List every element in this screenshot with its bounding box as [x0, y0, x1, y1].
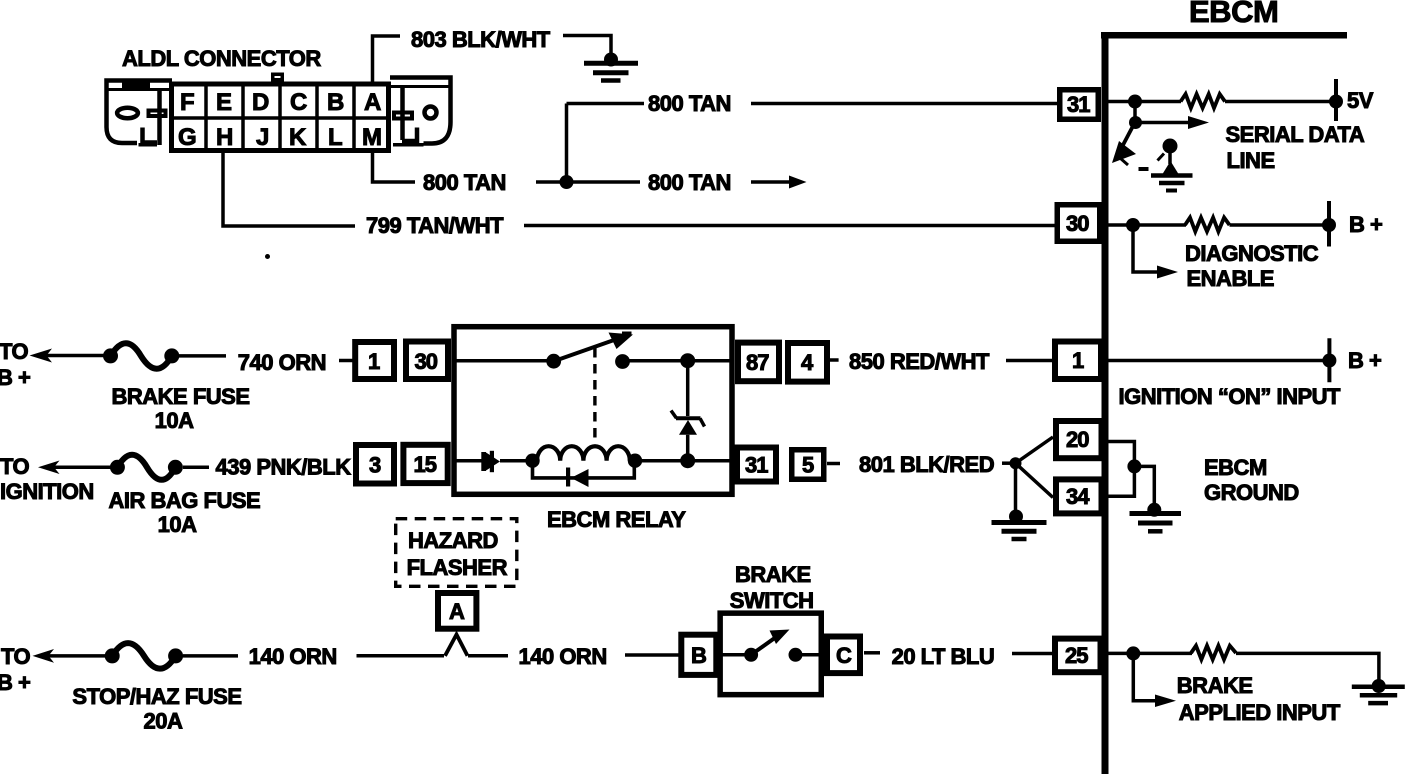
ground G4 (brake applied)	[1352, 679, 1405, 703]
arrow diagnostic enable	[1133, 225, 1178, 279]
svg-text:30: 30	[1066, 211, 1089, 236]
svg-text:87: 87	[746, 350, 769, 375]
svg-text:B: B	[691, 643, 706, 668]
wire 20 LT BLU to pin 25	[1012, 652, 1053, 656]
serial data node dot	[1129, 116, 1142, 129]
svg-text:800 TAN: 800 TAN	[648, 170, 731, 195]
brake switch pin box C	[827, 637, 880, 674]
svg-text:ALDL CONNECTOR: ALDL CONNECTOR	[122, 46, 321, 71]
connector J1 left mounting ear	[107, 81, 173, 146]
arrow 800 TAN continue	[751, 176, 807, 189]
relay pin box 1	[355, 342, 394, 379]
svg-text:EBCM RELAY: EBCM RELAY	[547, 507, 686, 532]
connector box A	[438, 593, 476, 629]
diode D1 (coil input)	[481, 451, 500, 472]
wire R2 to B+ terminal	[1230, 223, 1330, 227]
svg-text:10A: 10A	[158, 512, 197, 537]
svg-text:SWITCH: SWITCH	[730, 588, 814, 613]
EBCM pin box 34	[1056, 479, 1102, 513]
connector J1 pin grid body	[169, 74, 391, 151]
driver symbol with ground (serial data)	[1139, 139, 1193, 191]
fuse BRAKE FUSE 10A	[103, 343, 179, 369]
svg-text:L: L	[328, 124, 342, 151]
junction dot pin25	[1126, 646, 1140, 660]
svg-text:BRAKE FUSE: BRAKE FUSE	[112, 384, 250, 409]
svg-text:H: H	[216, 124, 233, 151]
svg-text:K: K	[289, 124, 307, 151]
relay pin box 15	[403, 445, 447, 483]
arrow serial data	[1136, 116, 1210, 129]
chevron tap under box A	[445, 635, 468, 656]
wire 803 to ground	[563, 36, 611, 55]
svg-text:SERIAL DATA: SERIAL DATA	[1226, 122, 1365, 147]
relay pin box 30	[406, 342, 448, 380]
relay bottom wire left	[454, 459, 482, 463]
svg-text:3: 3	[369, 453, 381, 478]
svg-text:APPLIED INPUT: APPLIED INPUT	[1179, 700, 1341, 725]
svg-text:AIR BAG FUSE: AIR BAG FUSE	[109, 488, 261, 513]
brake switch arm	[751, 630, 789, 655]
svg-text:LINE: LINE	[1227, 148, 1275, 173]
svg-text:BRAKE: BRAKE	[735, 562, 811, 587]
svg-text:20A: 20A	[144, 709, 183, 734]
relay pin box 5	[792, 450, 840, 480]
junction dot pin30	[1126, 218, 1140, 232]
coil end dot left	[525, 454, 539, 468]
fan wire to pin 20	[1016, 437, 1054, 463]
svg-text:TO: TO	[0, 339, 29, 364]
switch arm to ground (serial)	[1112, 126, 1136, 165]
svg-text:F: F	[180, 89, 194, 116]
wire pin31 to 5V	[1108, 100, 1181, 104]
svg-text:439 PNK/BLK: 439 PNK/BLK	[216, 455, 352, 480]
svg-text:20 LT BLU: 20 LT BLU	[892, 644, 995, 669]
EBCM pin box 30	[1057, 205, 1100, 242]
relay switch arm	[554, 333, 633, 362]
svg-text:J: J	[256, 124, 269, 151]
relay switch contact dot left	[546, 354, 561, 369]
wire EBCM pin1 to B+	[1108, 359, 1329, 363]
wire 799 TAN/WHT to pin 30	[524, 224, 1056, 228]
arrow to B+ (row 655)	[33, 649, 107, 663]
svg-text:10A: 10A	[155, 408, 194, 433]
arrow to ignition	[38, 461, 112, 475]
wire pin M down	[373, 153, 416, 182]
EBCM pin box 20	[1056, 421, 1102, 458]
wire 800 TAN top left segment	[567, 102, 645, 106]
relay pin box 87	[738, 343, 779, 382]
wire R3 to ground	[1236, 653, 1379, 681]
zener diode branch wire	[686, 361, 690, 461]
tiny dot artifact	[265, 254, 270, 259]
svg-text:FLASHER: FLASHER	[407, 555, 508, 580]
wire 140 ORN to chevron	[357, 654, 445, 658]
svg-text:M: M	[362, 124, 382, 151]
fan wire to pin 34	[1016, 463, 1054, 497]
svg-text:C: C	[836, 643, 852, 668]
svg-text:IGNITION: IGNITION	[0, 479, 94, 504]
svg-text:34: 34	[1066, 484, 1090, 509]
EBCM vertical boundary line	[1102, 32, 1109, 774]
svg-text:E: E	[216, 89, 232, 116]
wire fuse to 439	[183, 466, 209, 470]
internal ground node dot	[1127, 459, 1141, 473]
relay pin box 31	[737, 448, 776, 482]
wire pin A up	[373, 36, 401, 82]
hazard flasher dashed box	[396, 519, 517, 587]
svg-text:25: 25	[1065, 643, 1088, 668]
EBCM pin box 25	[1055, 639, 1101, 673]
svg-text:B +: B +	[0, 670, 30, 695]
wire fuse to 740 ORN	[179, 354, 226, 358]
EBCM relay box	[454, 327, 732, 495]
svg-text:A: A	[449, 599, 465, 624]
EBCM pin box 1	[1055, 342, 1101, 380]
arrow brake applied input	[1133, 653, 1176, 707]
svg-text:1: 1	[368, 349, 380, 374]
dashed actuator line	[593, 348, 596, 443]
connector J1 right mounting ear	[390, 78, 451, 145]
svg-text:140 ORN: 140 ORN	[519, 644, 607, 669]
arrow to B+ (row 360)	[30, 349, 105, 363]
wire 800 TAN tie vertical	[565, 104, 569, 183]
relay top wire right	[623, 359, 734, 363]
relay pin box 4	[788, 343, 839, 382]
svg-text:20: 20	[1066, 427, 1089, 452]
brake switch box	[720, 613, 821, 695]
brake switch wire left	[720, 653, 748, 657]
brake switch contact dot left	[744, 648, 758, 662]
junction dot zener bottom	[680, 453, 695, 468]
svg-text:D: D	[252, 89, 269, 116]
svg-text:801 BLK/RED: 801 BLK/RED	[859, 452, 994, 477]
wire 740 ORN to relay pin 1	[339, 359, 353, 363]
EBCM pin box 31	[1060, 90, 1099, 120]
brake switch contact dot right	[789, 648, 803, 662]
EBCM top boundary line	[1101, 32, 1347, 39]
fuse STOP/HAZ FUSE 20A	[105, 643, 183, 669]
svg-text:B +: B +	[0, 365, 30, 390]
svg-text:BRAKE: BRAKE	[1177, 673, 1253, 698]
ground G3 (EBCM internal)	[1130, 503, 1182, 532]
svg-text:850 RED/WHT: 850 RED/WHT	[849, 349, 990, 374]
junction dot zener top	[680, 353, 695, 368]
wire node to internal ground	[1134, 466, 1154, 505]
svg-text:IGNITION “ON” INPUT: IGNITION “ON” INPUT	[1119, 384, 1342, 409]
wire R1 to 5V terminal	[1225, 100, 1336, 104]
wire 800 TAN mid segment	[536, 180, 640, 184]
svg-text:740 ORN: 740 ORN	[238, 350, 326, 375]
relay switch contact dot right	[615, 354, 630, 369]
B+ terminal (row 225)	[1322, 201, 1336, 247]
wire 801 to ground fan	[1002, 461, 1013, 465]
coil end dot right	[628, 454, 642, 468]
svg-text:140 ORN: 140 ORN	[249, 644, 337, 669]
relay bottom wire right	[635, 459, 733, 463]
resistor R1 (5V pull-up)	[1181, 94, 1225, 108]
svg-text:5: 5	[802, 453, 814, 478]
svg-text:EBCM: EBCM	[1204, 455, 1267, 480]
svg-text:STOP/HAZ FUSE: STOP/HAZ FUSE	[72, 684, 241, 709]
svg-text:G: G	[178, 124, 196, 151]
ground G2 (801 BLK/RED)	[992, 510, 1047, 540]
wire pin25 to resistor	[1108, 652, 1192, 656]
svg-text:4: 4	[801, 350, 814, 375]
junction dot pin31	[1128, 95, 1142, 109]
fan wire down to ground	[1014, 463, 1018, 511]
svg-text:TO: TO	[0, 454, 30, 479]
brake switch wire right	[796, 653, 825, 657]
svg-text:GROUND: GROUND	[1204, 480, 1299, 505]
svg-text:B: B	[327, 89, 344, 116]
bypass diode loop wire	[533, 465, 635, 478]
relay coil L1	[537, 446, 630, 461]
svg-text:C: C	[290, 89, 307, 116]
zener diode	[671, 411, 705, 435]
svg-text:5V: 5V	[1347, 88, 1374, 113]
svg-text:ENABLE: ENABLE	[1187, 266, 1274, 291]
diode D2 (bypass)	[566, 468, 589, 488]
junction dot 800 TAN	[560, 175, 574, 189]
wire 800 TAN top to pin 31	[751, 102, 1058, 106]
svg-text:803 BLK/WHT: 803 BLK/WHT	[411, 27, 551, 52]
svg-text:B +: B +	[1348, 348, 1381, 373]
resistor R3 (brake input)	[1191, 646, 1236, 660]
wire chevron to 140 ORN (2)	[468, 654, 508, 658]
svg-text:TO: TO	[1, 644, 31, 669]
svg-text:799 TAN/WHT: 799 TAN/WHT	[366, 213, 504, 238]
wire pin30 to B+	[1108, 223, 1186, 227]
ground G1 (803 BLK/WHT)	[584, 53, 638, 81]
5V terminal	[1329, 79, 1343, 121]
wire pin20 to internal ground	[1106, 442, 1134, 497]
svg-text:31: 31	[1067, 92, 1090, 117]
svg-text:EBCM: EBCM	[1189, 0, 1278, 29]
wire fuse to 140 ORN	[183, 654, 238, 658]
brake switch pin box B	[681, 635, 716, 675]
resistor R2 (diagnostic B+)	[1185, 218, 1230, 232]
svg-text:1: 1	[1072, 348, 1084, 373]
relay top wire	[454, 359, 554, 363]
svg-text:30: 30	[415, 349, 438, 374]
relay pin box 3	[356, 445, 394, 484]
wire pin H down (799 TAN/WHT)	[223, 153, 355, 226]
wire 850 RED/WHT to EBCM pin 1	[1006, 359, 1053, 363]
B+ terminal (row 360)	[1322, 338, 1336, 382]
svg-text:A: A	[364, 89, 381, 116]
svg-text:15: 15	[414, 452, 437, 477]
svg-text:31: 31	[745, 453, 768, 478]
svg-text:DIAGNOSTIC: DIAGNOSTIC	[1185, 241, 1319, 266]
svg-text:HAZARD: HAZARD	[408, 528, 498, 553]
fan node dot	[1010, 457, 1022, 469]
svg-text:800 TAN: 800 TAN	[648, 91, 731, 116]
fuse AIR BAG FUSE 10A	[110, 455, 183, 480]
wire 140 ORN to brake switch B	[625, 653, 680, 657]
wire junction to serial node	[1133, 102, 1137, 123]
wire D1 to coil	[500, 459, 527, 463]
svg-text:800 TAN: 800 TAN	[423, 170, 506, 195]
svg-text:B +: B +	[1349, 212, 1382, 237]
